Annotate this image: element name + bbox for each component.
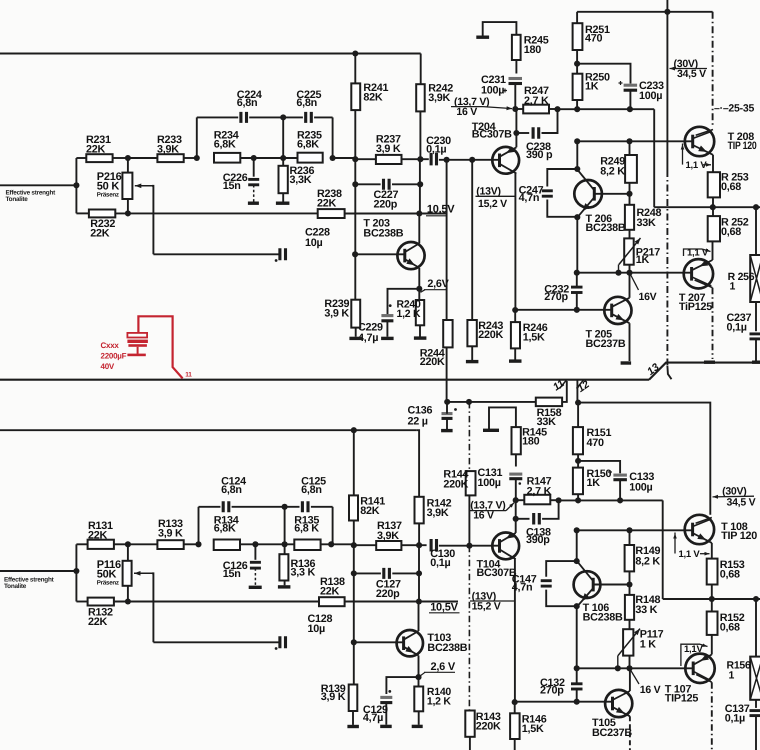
node 2,6V [416, 286, 422, 292]
node P117 bottom [626, 665, 632, 671]
svg-text:15n: 15n [223, 568, 241, 580]
svg-text:220K: 220K [443, 478, 468, 490]
bar T205 emitter [621, 361, 632, 364]
wire T205 emitter to bar [629, 323, 631, 361]
svg-text:15,2 V: 15,2 V [472, 601, 501, 613]
resistor R141 [353, 430, 355, 495]
ground R236 [276, 202, 290, 205]
svg-text:22K: 22K [88, 529, 108, 541]
svg-text:1,2 K: 1,2 K [427, 695, 452, 707]
svg-text:0,68: 0,68 [721, 226, 741, 238]
svg-text:33 K: 33 K [635, 604, 657, 616]
svg-text:100µ: 100µ [639, 90, 662, 102]
node R249 top [626, 138, 632, 144]
svg-text:180: 180 [522, 436, 540, 448]
resistor R150 [573, 468, 583, 495]
wire T105 collector [629, 668, 631, 691]
ground top (R145) [483, 429, 499, 432]
svg-text:220p: 220p [376, 588, 400, 600]
svg-text:3,9 K: 3,9 K [321, 691, 346, 703]
svg-text:3,9K: 3,9K [377, 530, 399, 542]
red capacitor Cxxx 2200uF plate1 [127, 333, 147, 338]
wire filter out to R137 [321, 543, 354, 545]
node P217 bottom [626, 270, 632, 276]
capacitor C131 electrolytic [509, 473, 522, 476]
wire T208 emitter [712, 155, 714, 172]
resistor R249 [629, 141, 631, 155]
node C128/base [351, 639, 357, 645]
svg-text:6,8n: 6,8n [237, 97, 258, 109]
wire output to zobel [755, 207, 757, 255]
capacitor C247 loop [547, 169, 577, 187]
svg-text:Tonalite: Tonalite [6, 196, 29, 203]
resistor R133 [157, 540, 183, 549]
node P117 wiper [615, 665, 621, 671]
ground R136 [278, 585, 291, 588]
node C226 tap [251, 155, 257, 161]
svg-text:BC238B: BC238B [583, 611, 623, 623]
bar T207 collector [704, 361, 715, 364]
svg-text:15,2 V: 15,2 V [478, 198, 507, 210]
svg-text:Präsenz: Präsenz [97, 191, 119, 198]
wire top supply bus (channel 2) [0, 53, 421, 55]
red capacitor Cxxx plate2 [127, 340, 147, 343]
capacitor C238 [513, 130, 519, 136]
wire T103 collector [418, 602, 420, 632]
node R243 top [469, 157, 475, 163]
wire net diagonal 13 [649, 363, 760, 380]
svg-text:22K: 22K [90, 228, 110, 240]
svg-text:2,7 K: 2,7 K [524, 95, 549, 107]
wire output to bootstrap [654, 206, 713, 208]
ground R240 [414, 336, 427, 339]
wire T207 collector dash to bar [712, 288, 714, 359]
svg-text:–·–25-35: –·–25-35 [714, 102, 754, 114]
node T205 base wire left [512, 307, 518, 313]
net tick 12 [577, 380, 584, 389]
wire T105 emitter dash [629, 716, 631, 750]
wire R158 right riser to net 11 [562, 381, 567, 402]
wire C228 left [153, 253, 280, 255]
wire top bus channel 1 [0, 429, 417, 431]
label 1,1V T208 [682, 144, 684, 165]
resistor R149 [629, 530, 631, 545]
transistor T206 BC238B [574, 180, 602, 208]
resistor R237 [376, 155, 402, 164]
svg-text:TIP 120: TIP 120 [721, 530, 757, 542]
resistor R139 [349, 685, 358, 712]
resistor R251 [576, 12, 578, 23]
wire T108 emitter [711, 543, 713, 559]
node R142 bottom [416, 542, 422, 548]
wire R231 to R233 [128, 157, 157, 159]
resistor R244 [446, 160, 448, 320]
wire R241 column down [354, 159, 356, 300]
wire T208 base [577, 140, 693, 142]
node C224/C225 [280, 114, 286, 120]
node T203 collector/R238 [416, 210, 422, 216]
resistor R252 [708, 216, 720, 241]
ground C226 [248, 202, 259, 205]
node R144 net top [466, 399, 472, 405]
svg-text:1,1 V: 1,1 V [687, 247, 709, 258]
node T206 collector top [574, 138, 580, 144]
svg-text:Tonalite: Tonalite [4, 583, 27, 590]
svg-text:40V: 40V [101, 362, 115, 371]
wire P216 wiper [152, 186, 153, 255]
svg-text:1,2 K: 1,2 K [397, 308, 422, 320]
svg-text:3,9 K: 3,9 K [324, 308, 349, 320]
svg-text:6,8K: 6,8K [214, 138, 236, 150]
wire bootstrap vertical ch1 [662, 500, 664, 599]
label 1,1V T108 [674, 533, 676, 554]
ground R139 [347, 725, 359, 728]
svg-text:16 V: 16 V [640, 684, 661, 696]
node output mid [710, 204, 716, 210]
net tick 11 [560, 380, 567, 389]
node R241 top [352, 50, 358, 56]
ground top (R245) [476, 36, 489, 39]
node R144 bottom on base wire [466, 543, 472, 549]
svg-text:1,5K: 1,5K [522, 723, 544, 735]
svg-text:BC237B: BC237B [586, 338, 626, 350]
wire left vertical R231/R232 [75, 158, 77, 213]
resistor R239 [351, 300, 360, 328]
resistor R240 [416, 300, 424, 325]
net junction C136 [444, 399, 450, 405]
node C232 bottom [574, 307, 580, 313]
resistor R142 [417, 430, 419, 497]
capacitor C132 [571, 682, 583, 685]
ground C136 [441, 429, 453, 432]
svg-text:22K: 22K [88, 616, 108, 628]
svg-text:3,9 K: 3,9 K [376, 143, 401, 155]
svg-text:3,9K: 3,9K [428, 92, 450, 104]
node R150 bottom [575, 497, 581, 503]
transistor T103 BC238B [397, 630, 423, 656]
resistor R250 [573, 74, 583, 100]
resistor R248 [629, 194, 631, 205]
node R136 tap [282, 541, 288, 547]
node T103 collector/R138 [416, 598, 422, 604]
wire input stub Effective strength [0, 184, 76, 186]
svg-text:11: 11 [185, 371, 192, 378]
node C124/C125 [282, 504, 288, 510]
svg-text:6,8n: 6,8n [301, 484, 322, 496]
svg-text:3,9K: 3,9K [427, 507, 449, 519]
svg-text:3,9K: 3,9K [157, 144, 179, 156]
svg-text:82K: 82K [363, 92, 383, 104]
resistor R234 [214, 153, 240, 163]
ground R239 [349, 337, 362, 340]
resistor R136 [284, 544, 286, 554]
wire T105 base [515, 701, 613, 703]
node R141 top [351, 427, 357, 433]
transistor T204 BC307B [492, 147, 519, 174]
wire mid riser ch1 [284, 507, 286, 545]
wire P117 wiper [617, 656, 619, 669]
svg-text:470: 470 [585, 33, 603, 45]
wire supply feed to right rail [578, 403, 710, 515]
svg-text:1K: 1K [636, 254, 650, 266]
resistor R144 [466, 471, 476, 495]
resistor R134 [214, 540, 240, 551]
svg-text:16 V: 16 V [456, 106, 477, 118]
transistor T205 BC237B [604, 297, 631, 324]
node R247 right [554, 106, 560, 112]
wire 30V rail [666, 12, 668, 170]
ground C129 [380, 725, 392, 728]
node zobel tap [753, 204, 759, 210]
svg-text:Präsenz: Präsenz [97, 579, 119, 586]
node R251/R250 [574, 61, 580, 67]
red wire Cxxx bottom lead [137, 347, 139, 354]
wire T204 collector down [514, 174, 516, 311]
capacitor C128 [280, 636, 286, 648]
capacitor C227 [352, 181, 358, 187]
wire T103 base [354, 641, 404, 643]
wire output to right edge [713, 206, 760, 208]
wire P217 wiper [618, 265, 620, 273]
node R141 bottom junction [351, 542, 357, 548]
wire T203 base [355, 253, 405, 255]
svg-text:6,8n: 6,8n [296, 97, 317, 109]
capacitor C229 electrolytic [381, 314, 393, 317]
wire T203 collector [418, 214, 420, 244]
node zobel tap ch1 [753, 596, 759, 602]
svg-text:1: 1 [729, 669, 735, 681]
capacitor C224 [241, 112, 247, 123]
ground R246 [509, 359, 522, 362]
svg-text:BC237B: BC237B [592, 727, 632, 739]
capacitor C233 electrolytic [577, 64, 630, 84]
node C132 bottom [574, 699, 580, 705]
label 16V ch1 [631, 670, 640, 684]
resistor R231 [76, 157, 86, 159]
svg-text:2,6 V: 2,6 V [431, 661, 456, 673]
wire R131 to R133 [128, 543, 157, 545]
svg-text:22K: 22K [320, 586, 340, 598]
transistor T207 TIP125 [684, 259, 713, 288]
node R236 tap [280, 155, 286, 161]
wire T207 base [577, 272, 691, 274]
svg-text:2200µF: 2200µF [101, 352, 127, 361]
wire C124/C125 loop top [199, 506, 221, 508]
svg-text:BC238B: BC238B [363, 227, 403, 239]
ground C237 [752, 361, 760, 364]
capacitor C126 [254, 544, 256, 560]
svg-text:1K: 1K [585, 80, 599, 92]
node input ch1 [73, 568, 79, 574]
wire C130 to T104 base [439, 545, 500, 547]
node R241 bottom junction [352, 156, 358, 162]
wire R141 column down [353, 545, 355, 684]
svg-text:0,1µ: 0,1µ [426, 144, 446, 156]
resistor R242 [420, 54, 422, 85]
potentiometer P116 [127, 544, 129, 561]
resistor R241 [354, 54, 356, 84]
wire emitter to R140 [418, 677, 420, 686]
node C233 bottom [627, 106, 633, 112]
svg-text:15n: 15n [223, 180, 241, 192]
capacitor C130 [431, 539, 436, 552]
node C126 tap [252, 541, 258, 547]
capacitor C125 [302, 501, 308, 512]
resistor R138 [319, 597, 345, 606]
svg-text:22 µ: 22 µ [408, 416, 428, 428]
wire T106 base [593, 584, 629, 586]
capacitor C226 [253, 158, 255, 177]
svg-text:100µ: 100µ [478, 477, 501, 489]
svg-text:270p: 270p [544, 291, 568, 303]
svg-text:8,2 K: 8,2 K [600, 166, 625, 178]
node P216 top [125, 155, 131, 161]
resistor R156 zobel bottom [750, 657, 760, 700]
resistor R146 [510, 713, 519, 739]
wire C128 left [153, 641, 280, 643]
svg-text:33K: 33K [637, 217, 657, 229]
wire T104 emitter up [515, 500, 517, 533]
svg-text:22K: 22K [317, 197, 337, 209]
wire riser to C124 loop [198, 507, 200, 545]
transistor T208 TIP120 [685, 127, 714, 156]
node R233/R234 [194, 155, 200, 161]
svg-text:8,2 K: 8,2 K [635, 556, 660, 568]
wire filter out to R237 [333, 157, 356, 159]
svg-text:3,3 K: 3,3 K [291, 566, 316, 578]
capacitor C133 electrolytic [578, 461, 620, 473]
svg-text:3,3K: 3,3K [290, 174, 312, 186]
svg-text:390p: 390p [526, 534, 550, 546]
svg-text:BC238B: BC238B [427, 642, 467, 654]
node filter out [330, 155, 336, 161]
svg-text:6,8K: 6,8K [297, 138, 319, 150]
resistor R233 [157, 154, 183, 162]
node net 12 / R151 [575, 400, 581, 406]
red wire Cxxx top [138, 316, 182, 378]
wire T205 collector [629, 273, 631, 298]
node P116 top [125, 541, 131, 547]
svg-text:4,7n: 4,7n [512, 581, 533, 593]
node R147 right [556, 497, 562, 503]
resistor R253 [708, 172, 720, 197]
wire C230 to T204 base [439, 159, 500, 161]
svg-text:1 K: 1 K [640, 639, 657, 651]
svg-text:22K: 22K [86, 144, 106, 156]
wire top supply link [577, 11, 713, 13]
wire T203 emitter [418, 268, 420, 289]
svg-text:10µ: 10µ [305, 237, 323, 249]
svg-text:34,5 V: 34,5 V [677, 68, 706, 80]
wire net 12 riser [576, 381, 578, 403]
svg-text:TiP125: TiP125 [679, 301, 712, 313]
resistor R256 zobel top [750, 255, 760, 302]
svg-text:0,68: 0,68 [721, 181, 741, 193]
resistor R243 [471, 160, 473, 320]
svg-text:0,1µ: 0,1µ [725, 712, 745, 724]
capacitor C138 [513, 516, 519, 522]
transistor T106 BC238B [574, 571, 601, 598]
node filter out ch1 [328, 541, 334, 547]
node R151/R150 [575, 458, 581, 464]
svg-text:BC307B: BC307B [472, 129, 512, 141]
resistor R152 [707, 612, 718, 635]
wire emitter to R240 [418, 289, 420, 300]
svg-text:220K: 220K [420, 356, 445, 368]
svg-text:1K: 1K [587, 477, 601, 489]
svg-text:1,1 V: 1,1 V [679, 549, 701, 560]
svg-text:2,7 K: 2,7 K [527, 485, 552, 497]
potentiometer P117 [623, 629, 633, 655]
wire input stub channel 1 [0, 570, 76, 572]
capacitor C231 electrolytic [509, 77, 523, 80]
wire R247 node to bootstrap corner [558, 108, 655, 110]
wire T107 base [577, 667, 693, 669]
wire T107 collector dash to edge [711, 682, 713, 750]
svg-text:6,8K: 6,8K [214, 522, 236, 534]
svg-text:10µ: 10µ [308, 623, 326, 635]
transistor T203 BC238B [397, 242, 424, 269]
svg-text:0,68: 0,68 [720, 621, 740, 633]
svg-text:220K: 220K [478, 329, 503, 341]
svg-text:1,1 V: 1,1 V [686, 160, 708, 171]
svg-text:TIP 120: TIP 120 [728, 140, 757, 152]
wire T103 emitter [418, 656, 420, 678]
resistor R140 [414, 687, 423, 712]
svg-text:10,5V: 10,5V [427, 203, 455, 215]
transistor T107 TIP125 [685, 654, 714, 683]
svg-text:3,9 K: 3,9 K [158, 527, 183, 539]
svg-text:390 p: 390 p [526, 149, 553, 161]
svg-text:1,5K: 1,5K [523, 331, 545, 343]
svg-text:Cxxx: Cxxx [101, 341, 120, 350]
wire T206 emitter [576, 217, 578, 272]
wire T107 emitter [711, 635, 713, 655]
resistor R137 [376, 541, 401, 550]
resistor R153 [707, 559, 718, 585]
node R133/R134 [195, 541, 201, 547]
wire output to zobel ch1 [755, 599, 757, 657]
resistor R238 [318, 209, 345, 218]
wire branch to C229 [388, 289, 420, 314]
node T206 base [626, 191, 632, 197]
ground R243 [466, 360, 479, 363]
svg-text:0,68: 0,68 [720, 569, 740, 581]
wire supply net 11 horizontal [0, 379, 649, 381]
label 16V [631, 275, 639, 291]
capacitor C232 [571, 286, 583, 289]
resistor R236 [282, 158, 284, 166]
wire output to bootstrap ch1 [663, 598, 712, 600]
node P216 bottom [125, 210, 131, 216]
svg-text:470: 470 [587, 437, 605, 449]
resistor R132 [76, 601, 87, 603]
wire mid riser to main line [282, 117, 284, 158]
red bar Cxxx minus [127, 354, 145, 357]
node P217 wiper [615, 270, 621, 276]
node 2,6V ch1 [415, 674, 421, 680]
svg-text:100µ: 100µ [481, 85, 504, 97]
svg-text:270p: 270p [540, 684, 564, 696]
red capacitor Cxxx plate3 [128, 344, 147, 347]
resistor R143 [465, 711, 474, 737]
svg-text:220K: 220K [476, 721, 501, 733]
svg-text:BC238B: BC238B [586, 222, 626, 234]
resistor R147 [516, 499, 525, 501]
transistor T105 BC237B [605, 690, 632, 717]
potentiometer P217 [624, 238, 634, 264]
wire R242 column down [419, 159, 421, 213]
